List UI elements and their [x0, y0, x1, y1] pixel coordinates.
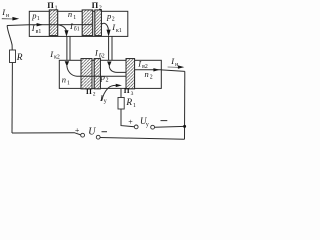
svg-text:к2: к2: [54, 55, 60, 61]
svg-text:П: П: [92, 0, 99, 10]
svg-text:у: у: [104, 99, 107, 105]
arrowhead I_k2 down: [65, 61, 69, 66]
svg-text:n: n: [145, 69, 149, 79]
wire winding n2 with I_v2: [135, 69, 162, 71]
arrowhead I_b2 down: [107, 62, 111, 67]
svg-text:1: 1: [37, 16, 40, 22]
svg-text:n: n: [62, 75, 66, 85]
svg-text:1: 1: [73, 15, 76, 21]
svg-text:2: 2: [99, 5, 102, 11]
wire input to winding p1: [7, 24, 92, 27]
svg-text:н: н: [6, 13, 9, 19]
wire I_b1 branch curve: [58, 25, 66, 32]
svg-text:П: П: [86, 87, 92, 96]
wire R to bottom left corner: [11, 63, 13, 134]
svg-text:p: p: [31, 10, 36, 20]
minus sign U: [102, 130, 108, 133]
wire left vertical to R: [7, 26, 12, 51]
svg-text:p: p: [106, 11, 111, 21]
junction dot right vertical and Uy wire: [183, 125, 186, 128]
svg-text:н: н: [175, 62, 178, 68]
arrowhead I_v1: [37, 23, 43, 26]
svg-text:1: 1: [67, 81, 70, 87]
arrowhead I_n input: [12, 17, 19, 21]
wire pair right (p2 top to lower block): [109, 36, 112, 60]
svg-text:б1: б1: [74, 26, 80, 33]
winding block W1 (top rectangle p1 n1 p2): [29, 11, 128, 36]
svg-text:p: p: [100, 72, 105, 82]
arrowhead I_k1 down: [107, 30, 111, 37]
svg-text:+: +: [75, 126, 80, 135]
svg-text:П: П: [124, 86, 130, 95]
svg-text:у: у: [146, 122, 149, 128]
svg-text:2: 2: [93, 92, 96, 98]
resistor R: [10, 50, 16, 63]
wire I_y arrow curve: [102, 85, 116, 100]
terminal circle U plus: [81, 133, 85, 137]
svg-text:в1: в1: [36, 29, 42, 35]
svg-text:n: n: [68, 9, 72, 19]
svg-text:б2: б2: [99, 52, 105, 59]
svg-text:2: 2: [150, 75, 153, 81]
wire R1 bottom to Uy plus: [121, 109, 134, 127]
arrowhead I_v2 right: [153, 68, 159, 71]
svg-text:2: 2: [106, 78, 109, 84]
core П2 bar upper right cell: [95, 10, 102, 36]
terminal circle Uy minus: [151, 125, 155, 129]
terminal circle Uy plus: [134, 125, 138, 129]
wire U minus to bottom right corner: [100, 138, 184, 140]
svg-text:+: +: [128, 117, 133, 126]
wire pair left (n1 top to lower block): [67, 36, 70, 60]
wire I_b2 winding in lower block: [109, 66, 126, 72]
terminal circle U minus: [96, 135, 100, 139]
wire R1 top lead: [120, 89, 122, 98]
arrowhead I_y right: [116, 84, 122, 87]
arrow line I_n input: [2, 17, 14, 20]
winding block W2 (lower rectangle n1 p2 n2): [59, 60, 161, 88]
core П1 bar (hatched): [49, 10, 57, 36]
wire I_k2 winding in lower block: [67, 66, 126, 76]
resistor R1: [118, 98, 124, 110]
core П2 bar lower right cell: [94, 59, 100, 89]
wire I_k1 branch curve: [101, 23, 108, 29]
svg-text:к1: к1: [116, 28, 122, 34]
wire output from n2 to right vertical: [161, 70, 185, 72]
arrow line I_n output: [168, 66, 179, 69]
wire Uy minus to right vertical junction: [155, 125, 185, 128]
svg-text:П: П: [47, 0, 54, 10]
core П2 bar lower left cell: [81, 59, 92, 89]
svg-text:1: 1: [133, 103, 136, 109]
core П3 bar (hatched): [126, 59, 135, 89]
wire right vertical: [184, 71, 186, 139]
wire bottom left to U plus terminal: [12, 133, 81, 135]
arrowhead I_b1 down: [65, 30, 69, 36]
minus sign Uy: [161, 119, 168, 122]
svg-text:R: R: [125, 98, 132, 108]
svg-text:3: 3: [131, 91, 134, 97]
svg-text:1: 1: [55, 5, 58, 11]
core П2 bar upper left cell: [82, 10, 93, 36]
arrowhead I_n output right: [178, 65, 184, 68]
svg-text:U: U: [88, 127, 96, 138]
svg-text:R: R: [16, 53, 23, 63]
